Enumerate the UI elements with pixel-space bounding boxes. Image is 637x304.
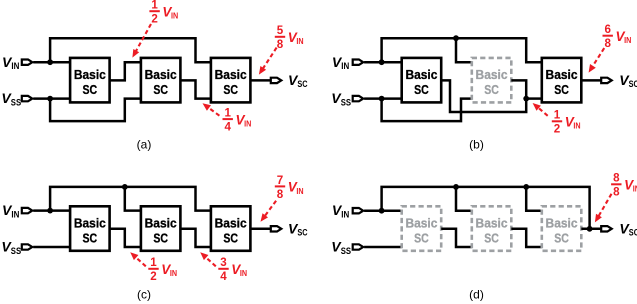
basic SC U1a bbox=[70, 58, 110, 103]
basic SC U1d (bypassed) bbox=[402, 206, 442, 251]
wire U3a out to VSC port (a) bbox=[250, 79, 270, 82]
node VSS junction (b) bbox=[379, 96, 385, 102]
label VSS (b) bbox=[331, 90, 351, 107]
svg-text:IN: IN bbox=[171, 11, 178, 21]
wire U2a out to U3a bottom (node 1/4 VIN) bbox=[180, 80, 211, 98]
label 6/8 VIN (b) bbox=[603, 23, 632, 50]
basic SC U3b bbox=[542, 58, 582, 103]
basic SC U2b (bypassed) bbox=[472, 58, 512, 103]
svg-text:8: 8 bbox=[613, 186, 620, 199]
port VIN (b) bbox=[353, 60, 364, 65]
wire VIN top rail to output node (d) bbox=[382, 187, 590, 229]
svg-text:IN: IN bbox=[633, 184, 637, 194]
label 1/2 VIN (b) bbox=[552, 109, 581, 136]
label VSC (b) bbox=[619, 72, 637, 89]
svg-text:(b): (b) bbox=[469, 138, 484, 152]
arrow 6/8 VIN (b) bbox=[589, 48, 605, 73]
node top rail tap (c) bbox=[122, 184, 128, 190]
basic SC U3c bbox=[211, 206, 251, 251]
arrow 1/2 VIN (c) bbox=[130, 252, 146, 266]
wire U3b out to VSC port (b) bbox=[581, 79, 601, 82]
wire node to U3b bottom (b) bbox=[526, 97, 542, 100]
label 5/8 VIN (a) bbox=[275, 24, 304, 51]
svg-text:(a): (a) bbox=[137, 138, 152, 152]
port VSC (a) bbox=[271, 78, 282, 83]
svg-text:SC: SC bbox=[629, 79, 637, 89]
wire U3c out to VSC port (c) bbox=[250, 228, 270, 231]
svg-text:Basic: Basic bbox=[215, 216, 247, 230]
basic SC U2d (bypassed) bbox=[472, 206, 512, 251]
svg-text:IN: IN bbox=[11, 61, 19, 71]
wire rail tap down to U2b top (b) bbox=[456, 38, 472, 62]
node top rail tap 2 (d) bbox=[523, 184, 529, 190]
svg-text:1: 1 bbox=[224, 107, 231, 120]
svg-text:IN: IN bbox=[296, 36, 303, 46]
svg-text:IN: IN bbox=[244, 119, 251, 129]
svg-text:SC: SC bbox=[297, 79, 308, 89]
svg-text:SC: SC bbox=[629, 228, 637, 238]
svg-text:SC: SC bbox=[223, 231, 238, 245]
basic SC U2c bbox=[141, 206, 181, 251]
node top rail tap (b) bbox=[453, 35, 459, 41]
wire VSS bottom rail to U2b (b) bbox=[382, 99, 472, 122]
port VSS (a) bbox=[22, 96, 33, 101]
svg-text:2: 2 bbox=[151, 13, 157, 26]
svg-text:Basic: Basic bbox=[405, 68, 437, 82]
svg-text:Basic: Basic bbox=[546, 216, 578, 230]
svg-text:SC: SC bbox=[153, 83, 168, 97]
wire U3d out to VSC port (d) bbox=[581, 228, 601, 231]
label 7/8 VIN (c) bbox=[275, 174, 304, 201]
svg-text:4: 4 bbox=[224, 121, 231, 134]
svg-text:2: 2 bbox=[150, 270, 156, 283]
wire VSS to U1b (b) bbox=[364, 97, 402, 100]
svg-text:IN: IN bbox=[296, 186, 303, 196]
svg-text:SS: SS bbox=[341, 246, 351, 256]
wire rail tap down to U2c top (c) bbox=[125, 187, 141, 211]
basic SC U1b bbox=[402, 58, 442, 103]
label 8/8 VIN (d) bbox=[611, 172, 637, 199]
wire VIN top rail to U3a (a) bbox=[50, 38, 211, 62]
svg-text:Basic: Basic bbox=[74, 68, 106, 82]
label VSS (c) bbox=[1, 239, 21, 256]
wire VIN to U1d (d) bbox=[364, 209, 402, 212]
svg-text:SC: SC bbox=[297, 228, 308, 238]
svg-text:Basic: Basic bbox=[405, 216, 437, 230]
svg-text:8: 8 bbox=[277, 188, 284, 201]
svg-text:7: 7 bbox=[277, 174, 283, 187]
label VSS (a) bbox=[1, 90, 21, 107]
arrow 1/2 VIN (a) bbox=[132, 24, 151, 58]
wire U1c out to U2c bottom (node 1/2 VIN) bbox=[110, 229, 141, 247]
port VIN (c) bbox=[22, 208, 33, 213]
svg-text:Basic: Basic bbox=[145, 216, 177, 230]
port VSC (b) bbox=[601, 78, 612, 83]
svg-text:1: 1 bbox=[150, 256, 157, 269]
label VIN (b) bbox=[332, 54, 349, 71]
svg-text:1: 1 bbox=[554, 109, 561, 122]
wire rail tap 1 down to U2d top (d) bbox=[456, 187, 472, 211]
svg-text:8: 8 bbox=[277, 38, 284, 51]
label VSS (d) bbox=[331, 239, 351, 256]
wire U1b out under U2b to node 1/2 VIN (b) bbox=[441, 80, 526, 112]
svg-text:IN: IN bbox=[573, 121, 580, 131]
svg-text:SC: SC bbox=[414, 83, 429, 97]
wire VSS bottom rail to U2a (a) bbox=[50, 99, 141, 122]
wire U1d out to U2d bottom (d) bbox=[441, 229, 472, 247]
svg-text:SC: SC bbox=[223, 83, 238, 97]
node VIN junction (b) bbox=[379, 59, 385, 65]
basic SC U3a bbox=[211, 58, 251, 103]
svg-text:SC: SC bbox=[554, 83, 569, 97]
svg-text:8: 8 bbox=[604, 37, 611, 50]
svg-text:Basic: Basic bbox=[476, 68, 508, 82]
label VIN (d) bbox=[332, 202, 349, 219]
svg-text:SS: SS bbox=[11, 98, 21, 108]
svg-text:3: 3 bbox=[220, 256, 227, 269]
svg-text:SC: SC bbox=[484, 231, 499, 245]
svg-text:Basic: Basic bbox=[476, 216, 508, 230]
wire VIN to U1b (b) bbox=[364, 61, 402, 64]
svg-text:5: 5 bbox=[277, 24, 284, 37]
wire U2b out to node 1/2 VIN (b) bbox=[511, 80, 526, 98]
arrow 1/2 VIN (b) bbox=[533, 103, 548, 116]
label VIN (a) bbox=[2, 54, 19, 71]
basic SC U1c bbox=[70, 206, 110, 251]
svg-text:Basic: Basic bbox=[145, 68, 177, 82]
wire VSS to U1a (a) bbox=[33, 97, 70, 100]
wire VSS to U1c (c) bbox=[33, 246, 70, 249]
port VIN (a) bbox=[22, 60, 33, 65]
arrow 1/4 VIN (a) bbox=[203, 103, 220, 116]
basic SC U2a bbox=[141, 58, 181, 103]
svg-text:IN: IN bbox=[170, 268, 177, 278]
basic SC U3d (bypassed) bbox=[542, 206, 582, 251]
label 3/4 VIN (c) bbox=[218, 256, 247, 283]
label 1/2 VIN (a) bbox=[149, 0, 178, 26]
port VSC (d) bbox=[601, 226, 612, 231]
wire U2c out to U3c bottom (node 3/4 VIN) bbox=[180, 229, 211, 247]
svg-text:IN: IN bbox=[240, 268, 247, 278]
wire U1a out to U2a top (node 1/2 VIN) bbox=[110, 62, 141, 80]
wire VIN to U1c (c) bbox=[33, 209, 70, 212]
port VIN (d) bbox=[353, 208, 364, 213]
svg-text:IN: IN bbox=[11, 210, 19, 220]
wire VIN top rail to U3b (b) bbox=[382, 38, 542, 62]
arrow 8/8 VIN (d) bbox=[595, 194, 612, 223]
arrow 3/4 VIN (c) bbox=[200, 252, 216, 266]
node VSS junction (a) bbox=[47, 96, 53, 102]
svg-text:IN: IN bbox=[341, 61, 349, 71]
svg-text:(c): (c) bbox=[137, 288, 151, 302]
label VSC (c) bbox=[288, 220, 308, 237]
svg-text:Basic: Basic bbox=[215, 68, 247, 82]
svg-text:(d): (d) bbox=[469, 288, 484, 302]
arrow 7/8 VIN (c) bbox=[261, 201, 277, 222]
svg-text:SC: SC bbox=[414, 231, 429, 245]
node VIN junction (a) bbox=[47, 59, 53, 65]
label VSC (a) bbox=[288, 72, 308, 89]
wire VIN to U1a (a) bbox=[33, 61, 70, 64]
port VSC (c) bbox=[271, 226, 282, 231]
wire U2d out to U3d bottom (d) bbox=[511, 229, 542, 247]
node 1/2 VIN (b) bbox=[523, 96, 529, 102]
port VSS (d) bbox=[353, 244, 364, 249]
wire VIN top rail to U3c (c) bbox=[50, 187, 211, 211]
wire VSS to U1d (d) bbox=[364, 246, 402, 249]
wire rail tap 2 down to U3d top (d) bbox=[526, 187, 542, 211]
node 8/8 VIN output (d) bbox=[587, 226, 593, 232]
svg-text:Basic: Basic bbox=[74, 216, 106, 230]
svg-text:1: 1 bbox=[151, 0, 158, 12]
node VIN junction (d) bbox=[379, 208, 385, 214]
label VIN (c) bbox=[2, 202, 19, 219]
svg-text:SC: SC bbox=[554, 231, 569, 245]
label VSC (d) bbox=[619, 220, 637, 237]
svg-text:SC: SC bbox=[83, 231, 98, 245]
svg-text:Basic: Basic bbox=[546, 68, 578, 82]
svg-text:IN: IN bbox=[624, 35, 631, 45]
port VSS (b) bbox=[353, 96, 364, 101]
svg-text:SC: SC bbox=[153, 231, 168, 245]
node top rail tap 1 (d) bbox=[453, 184, 459, 190]
svg-text:SS: SS bbox=[11, 246, 21, 256]
svg-text:6: 6 bbox=[604, 23, 611, 36]
svg-text:4: 4 bbox=[220, 270, 227, 283]
svg-text:8: 8 bbox=[613, 172, 620, 185]
label 1/4 VIN (a) bbox=[223, 107, 252, 134]
svg-text:SC: SC bbox=[484, 83, 499, 97]
svg-text:IN: IN bbox=[341, 210, 349, 220]
svg-text:SS: SS bbox=[341, 98, 351, 108]
svg-text:SC: SC bbox=[83, 83, 98, 97]
label 1/2 VIN (c) bbox=[148, 256, 177, 283]
arrow 5/8 VIN (a) bbox=[259, 48, 277, 75]
svg-text:2: 2 bbox=[554, 123, 560, 136]
port VSS (c) bbox=[22, 244, 33, 249]
node VIN junction (c) bbox=[47, 208, 53, 214]
